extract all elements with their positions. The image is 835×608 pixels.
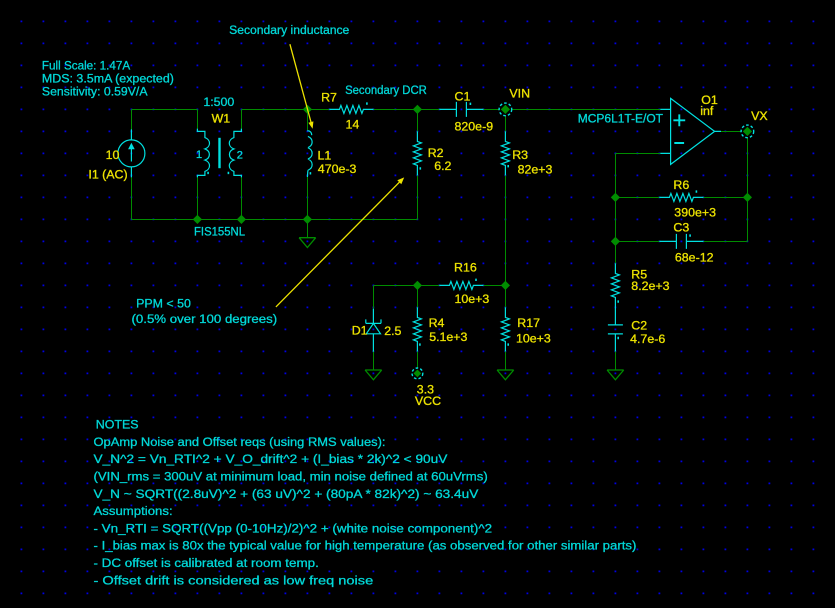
svg-text:470e-3: 470e-3 [318, 162, 357, 176]
svg-text:820e-9: 820e-9 [455, 120, 494, 134]
svg-text:390e+3: 390e+3 [674, 205, 716, 219]
svg-text:Sensitivity: 0.59V/A: Sensitivity: 0.59V/A [42, 85, 148, 99]
svg-text:R2: R2 [428, 146, 444, 160]
svg-text:1: 1 [196, 149, 202, 161]
svg-text:PPM < 50: PPM < 50 [136, 296, 191, 310]
svg-text:C3: C3 [673, 221, 689, 235]
svg-text:VCC: VCC [415, 394, 441, 408]
svg-text:- Offset drift is considered a: - Offset drift is considered as low freq… [94, 573, 374, 587]
svg-text:R4: R4 [429, 316, 445, 330]
svg-text:R7: R7 [321, 90, 337, 104]
svg-text:C1: C1 [455, 90, 471, 104]
svg-text:L1: L1 [318, 149, 332, 163]
svg-text:R6: R6 [673, 178, 689, 192]
svg-text:NOTES: NOTES [96, 418, 139, 432]
svg-text:V_N^2 = Vn_RTI^2 + V_O_drift^2: V_N^2 = Vn_RTI^2 + V_O_drift^2 + (I_bias… [94, 452, 449, 466]
svg-text:R16: R16 [454, 261, 477, 275]
svg-text:FIS155NL: FIS155NL [194, 224, 245, 238]
svg-text:MDS: 3.5mA (expected): MDS: 3.5mA (expected) [42, 72, 174, 86]
svg-text:MCP6L1T-E/OT: MCP6L1T-E/OT [578, 112, 664, 126]
svg-text:68e-12: 68e-12 [675, 251, 714, 265]
svg-text:R17: R17 [517, 316, 540, 330]
svg-text:- I_bias max is 80x the typica: - I_bias max is 80x the typical value fo… [94, 539, 637, 553]
svg-text:V_N ~ SQRT((2.8uV)^2 + (63 uV): V_N ~ SQRT((2.8uV)^2 + (63 uV)^2 + (80pA… [94, 487, 480, 501]
svg-text:W1: W1 [212, 112, 231, 126]
svg-text:6.2: 6.2 [434, 159, 451, 173]
svg-text:- DC offset is calibrated at r: - DC offset is calibrated at room temp. [94, 556, 319, 570]
svg-text:I1 (AC): I1 (AC) [88, 168, 127, 182]
svg-text:- Vn_RTI = SQRT((Vpp (0-10Hz)/: - Vn_RTI = SQRT((Vpp (0-10Hz)/2)^2 + (wh… [94, 521, 493, 535]
svg-text:82e+3: 82e+3 [518, 163, 553, 177]
svg-text:2: 2 [237, 150, 243, 162]
svg-text:inf: inf [700, 104, 714, 118]
svg-text:1:500: 1:500 [203, 95, 234, 109]
svg-text:Full Scale: 1.47A: Full Scale: 1.47A [42, 59, 131, 73]
svg-text:2.5: 2.5 [384, 324, 401, 338]
svg-text:10: 10 [106, 148, 120, 162]
svg-text:4.7e-6: 4.7e-6 [630, 332, 665, 346]
svg-text:C2: C2 [631, 319, 647, 333]
svg-text:(VIN_rms = 300uV at minimum lo: (VIN_rms = 300uV at minimum load, min no… [94, 470, 488, 484]
svg-text:10e+3: 10e+3 [516, 332, 551, 346]
svg-text:8.2e+3: 8.2e+3 [631, 279, 669, 293]
svg-text:Assumptions:: Assumptions: [94, 504, 173, 518]
svg-text:VIN: VIN [509, 87, 530, 101]
svg-text:14: 14 [346, 118, 360, 132]
svg-text:10e+3: 10e+3 [455, 292, 490, 306]
svg-text:(0.5% over 100 degrees): (0.5% over 100 degrees) [132, 312, 278, 326]
svg-text:Secondary DCR: Secondary DCR [345, 83, 427, 97]
svg-text:R3: R3 [512, 148, 528, 162]
svg-text:OpAmp Noise and Offset reqs (u: OpAmp Noise and Offset reqs (using RMS v… [94, 435, 386, 449]
svg-text:5.1e+3: 5.1e+3 [429, 330, 467, 344]
svg-text:D1: D1 [352, 324, 368, 338]
svg-text:Secondary inductance: Secondary inductance [229, 23, 349, 37]
svg-text:VX: VX [751, 109, 768, 123]
